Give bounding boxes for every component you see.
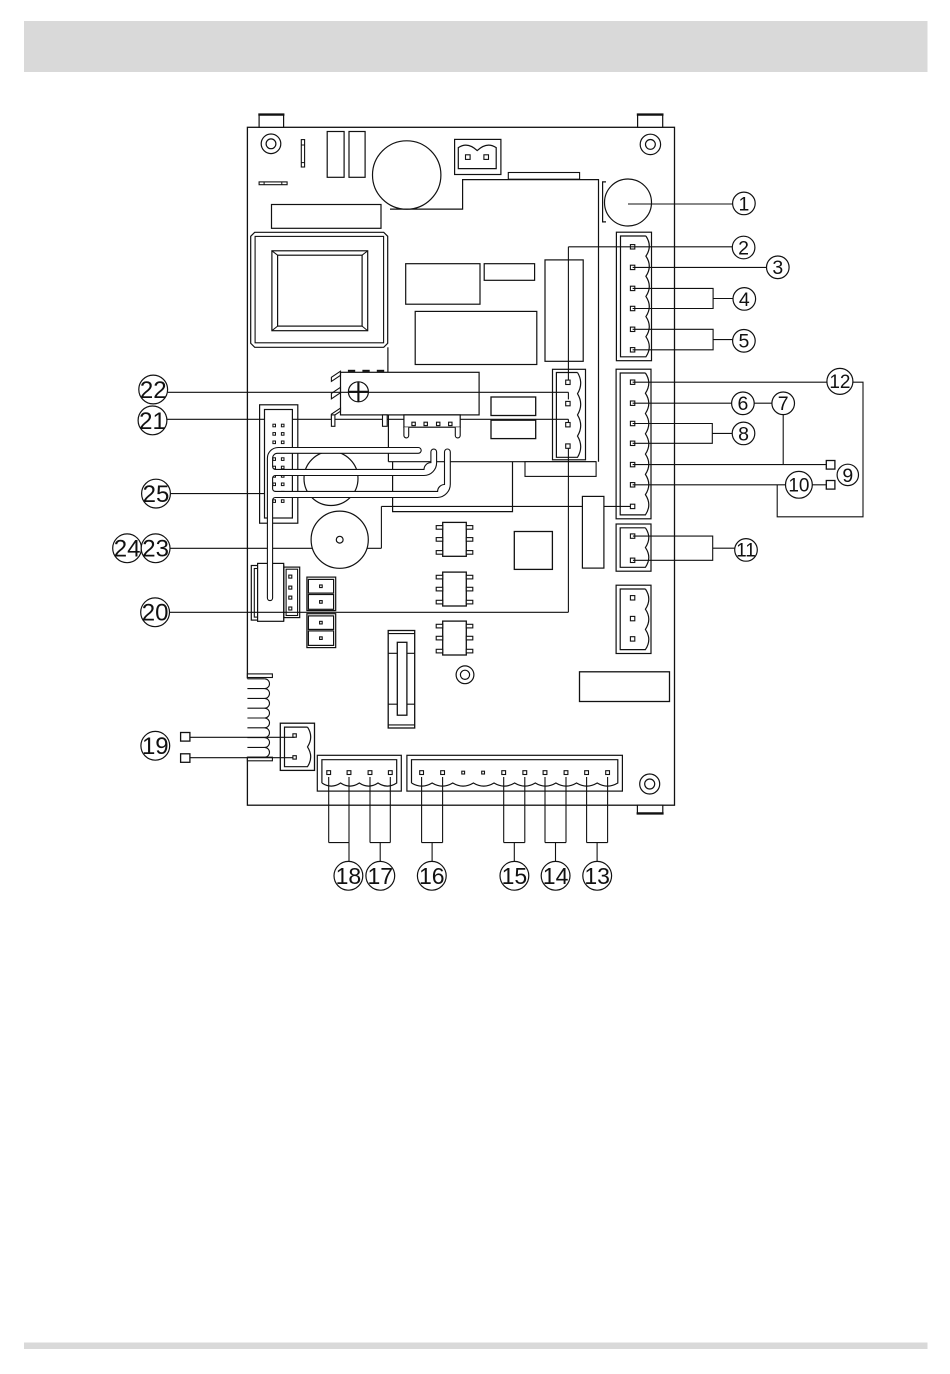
svg-text:25: 25 — [143, 481, 170, 508]
callout 11 — [735, 539, 758, 562]
wire trace 21 horizontal — [167, 418, 569, 420]
connector CN20 pin 2 — [289, 586, 292, 589]
board tab top-right — [637, 114, 664, 127]
mounting hole top-right — [640, 134, 660, 154]
inductor L1 coil — [247, 674, 272, 761]
connector CN23 pin 4 — [566, 444, 570, 448]
connector CN20 pin 4 — [289, 607, 292, 610]
wire bracket 15 — [504, 777, 525, 862]
svg-text:15: 15 — [502, 863, 528, 889]
component tall rect U3 — [545, 260, 583, 361]
connector CN-B pin 5 — [630, 462, 634, 466]
wire tube assembly — [267, 448, 450, 601]
transformer T1 core outer — [272, 251, 368, 331]
horizontal slot jumper — [259, 182, 287, 185]
mounting hole top-left — [261, 134, 281, 154]
test point TP1 — [456, 666, 474, 684]
connector CN19 inner — [285, 727, 311, 767]
rect header top — [272, 205, 382, 229]
connector CN20 frame inner — [254, 569, 280, 618]
connector CN-B pin 2 — [630, 401, 634, 405]
optocoupler block 1 — [307, 577, 336, 611]
connector CN-D pin 3 — [630, 637, 634, 641]
wire trace 23-24 vertical — [380, 506, 382, 548]
connector CN-D outer — [616, 585, 651, 653]
transformer T1 core inner — [278, 255, 363, 326]
wire bracket 18 — [329, 777, 349, 862]
screw on heatsink — [348, 382, 368, 402]
connector CN-E outer — [317, 755, 401, 791]
heatsink fin 3 — [331, 408, 340, 417]
led square 10 — [826, 481, 835, 490]
pcb board outline — [247, 127, 674, 805]
callout 6 — [732, 392, 755, 415]
connector CN20 pin 1 — [289, 575, 292, 578]
callout 15 — [500, 861, 529, 890]
svg-text:17: 17 — [368, 863, 394, 889]
connector CN23 pin 1 — [566, 380, 570, 384]
ic U8 square — [514, 532, 552, 570]
capacitor CE2 — [349, 132, 365, 178]
connector CN23 outer — [553, 369, 586, 460]
callout 21 — [138, 406, 167, 435]
svg-text:3: 3 — [772, 257, 783, 279]
svg-text:18: 18 — [336, 863, 362, 889]
wire trace 10 net — [633, 484, 827, 486]
connector CN-C pin 1 — [630, 534, 634, 538]
connector CN-aux pin 2 — [424, 422, 427, 425]
wire bracket 17 — [370, 777, 390, 862]
connector CN-aux pin 3 — [437, 422, 440, 425]
svg-text:19: 19 — [142, 733, 169, 760]
pin header CN25 pins — [273, 424, 284, 502]
connector CN-E pin 3 — [368, 771, 372, 775]
connector CN-B outer — [616, 369, 651, 519]
component rect R-block2 — [491, 420, 536, 438]
callout 14 — [541, 861, 570, 890]
wire bracket callout 8 — [633, 424, 713, 444]
wire trace 20 net vertical upper — [567, 247, 569, 380]
component tall rect U4 — [582, 496, 604, 568]
connector CN20 sub outer — [284, 567, 300, 618]
to220 dash 2 — [362, 370, 369, 372]
buzzer BZ1 — [311, 511, 368, 568]
connector CN23 inner — [556, 373, 580, 458]
connector CN-F pin 9 — [585, 771, 589, 775]
transformer-edge vertical wire — [387, 347, 389, 372]
connector CN-A pin 5 — [630, 327, 634, 331]
connector CN-aux pin 1 — [412, 422, 415, 425]
region outline mid horizontal — [388, 461, 596, 463]
heatsink fin 1 — [331, 371, 340, 381]
connector CN19 pin 1 — [293, 734, 296, 737]
connector CN-B inner — [620, 373, 649, 515]
component wide rect bottom-right — [580, 672, 670, 702]
svg-text:10: 10 — [788, 475, 809, 496]
connector CN-C outer — [616, 524, 651, 571]
svg-text:14: 14 — [543, 863, 569, 889]
callout 24 — [113, 534, 142, 563]
relay K2 outline — [415, 311, 537, 364]
wire trace 23-24 to connector pin7 — [381, 505, 630, 507]
component rect R-block1 — [491, 397, 536, 416]
mounting hole bottom-right — [640, 774, 660, 794]
vertical slot crystal — [301, 140, 304, 167]
connector CN-E inner — [322, 760, 397, 786]
connector CN19 outer — [280, 723, 314, 770]
component rect U2 — [484, 264, 534, 281]
svg-text:23: 23 — [142, 536, 169, 563]
page footer bar — [24, 1343, 928, 1350]
region outline step near circle — [390, 180, 599, 462]
svg-text:22: 22 — [140, 377, 167, 404]
wire bracket 16 — [422, 777, 443, 862]
connector CN-aux pin 4 — [449, 422, 452, 425]
callout 5 — [733, 330, 756, 353]
callout 17 — [366, 861, 395, 890]
relay K1 outline — [406, 264, 480, 305]
connector CN-aux body — [404, 415, 460, 427]
callout 8 — [732, 422, 755, 445]
board tab top-left — [258, 114, 284, 127]
callout 18 — [334, 861, 363, 890]
ic U6 soic — [436, 572, 473, 606]
connector CN20 body — [258, 563, 284, 621]
callout 25 — [142, 479, 171, 508]
svg-text:6: 6 — [737, 393, 748, 415]
connector CN-A outer — [616, 232, 651, 361]
connector CN23 pin 3 — [566, 423, 570, 427]
transformer T1 frame2 — [255, 236, 384, 342]
connector CN-C pin 2 — [630, 558, 634, 562]
large capacitor C1 — [373, 141, 441, 209]
callout 23 — [141, 534, 170, 563]
wire trace 23-24 to buzzer — [171, 547, 382, 549]
connector CN23 pin 2 — [566, 401, 570, 405]
connector top 2-pin pin1 — [466, 155, 471, 160]
connector CN-D pin 1 — [630, 596, 634, 600]
page header bar — [24, 21, 928, 72]
callout 4 — [733, 288, 756, 311]
region notch outline — [393, 462, 513, 512]
callout 2 — [732, 236, 755, 259]
wire trace 7 vertical — [782, 415, 784, 465]
wire trace 22 — [168, 391, 569, 393]
wire bracket callout 4 — [633, 288, 714, 308]
board tab bottom-right — [637, 805, 664, 813]
leader line callout 1 — [628, 203, 733, 205]
connector top 2-pin outline — [455, 139, 501, 174]
connector CN-A pin 3 — [630, 286, 634, 290]
to220 dash 3 — [377, 370, 384, 372]
wire trace 12 net — [633, 382, 863, 517]
connector CN-B pin 1 — [630, 380, 634, 384]
connector CN-A pin 2 — [630, 265, 634, 269]
connector CN20 sub inner — [286, 569, 298, 615]
connector CN-F pin 4 — [482, 771, 485, 774]
optocoupler block 2 — [307, 614, 336, 648]
connector CN-F pin 8 — [564, 771, 568, 775]
connector CN20 pin 3 — [289, 596, 292, 599]
wire trace 6-7 — [633, 402, 784, 404]
connector CN-B pin 4 — [630, 441, 634, 445]
wire trace 20 horizontal — [170, 611, 569, 613]
wire 19a — [190, 736, 295, 738]
component rect C-block — [525, 462, 596, 477]
connector CN-A pin 4 — [630, 306, 634, 310]
heatsink leg right — [383, 415, 388, 426]
callout 16 — [417, 861, 446, 890]
connector CN-E pin 4 — [388, 771, 392, 775]
callout 7 — [772, 392, 795, 415]
svg-text:9: 9 — [842, 465, 853, 487]
callout 13 — [583, 861, 612, 890]
transformer T1 outer — [251, 232, 388, 347]
vertical wire V1 — [387, 372, 389, 461]
connector CN-F pin 5 — [502, 771, 506, 775]
terminal square 19a — [181, 733, 190, 742]
leader line callout 3 — [633, 266, 767, 268]
callout 9 — [837, 464, 858, 485]
svg-text:13: 13 — [584, 863, 610, 889]
svg-text:4: 4 — [739, 289, 750, 311]
ic U5 soic — [436, 522, 473, 556]
svg-text:16: 16 — [419, 863, 445, 889]
capacitor C3 behind tubes — [304, 452, 358, 506]
svg-text:12: 12 — [829, 372, 850, 393]
connector CN-aux leg right — [455, 427, 460, 438]
connector CN-B pin 7 — [630, 504, 634, 508]
led square 9 — [826, 461, 835, 470]
connector CN-F pin 6 — [523, 771, 527, 775]
svg-text:24: 24 — [114, 536, 141, 563]
connector CN-B pin 6 — [630, 483, 634, 487]
to220 dash 1 — [348, 370, 355, 372]
capacitor C2 flat bracket — [603, 182, 606, 222]
svg-text:1: 1 — [738, 193, 749, 215]
connector top 2-pin inner — [458, 145, 496, 168]
wire trace 21 drop to pin — [567, 419, 569, 422]
connector CN-D pin 2 — [630, 616, 634, 620]
capacitor C2 body — [605, 179, 652, 226]
connector CN-aux leg left — [404, 427, 409, 438]
svg-text:2: 2 — [738, 237, 749, 259]
wire bracket 14 — [545, 777, 566, 862]
connector CN-F pin 7 — [543, 771, 547, 775]
rom socket bar — [508, 173, 579, 180]
wire trace pin1-A to callout 2 — [568, 246, 732, 248]
svg-text:5: 5 — [738, 331, 749, 353]
connector CN-F inner — [412, 760, 618, 786]
connector CN-A inner — [621, 236, 650, 357]
svg-text:20: 20 — [142, 600, 169, 627]
capacitor CE1 — [327, 132, 344, 178]
connector CN-F pin 3 — [462, 771, 465, 774]
connector CN-D inner — [620, 589, 649, 650]
connector CN-F pin 1 — [420, 771, 424, 775]
heatsink fin 2 — [331, 387, 340, 399]
ic U7 soic — [436, 621, 473, 655]
connector CN-A pin 1 — [630, 245, 634, 249]
wire bracket 13 — [587, 777, 608, 862]
callout 1 — [733, 192, 756, 215]
svg-text:7: 7 — [778, 393, 789, 415]
connector CN-A pin 6 — [630, 348, 634, 352]
connector CN-E pin 2 — [347, 771, 351, 775]
svg-text:8: 8 — [738, 423, 749, 445]
callout 22 — [139, 375, 168, 404]
callout 3 — [767, 256, 790, 279]
callout 10 — [786, 471, 813, 498]
connector CN-F outer — [407, 755, 623, 791]
heatsink body — [341, 372, 480, 415]
heatsink leg left — [331, 415, 335, 426]
connector CN-F pin 2 — [441, 771, 445, 775]
pin header CN25 outer — [260, 405, 298, 523]
connector CN20 frame outer — [251, 566, 283, 621]
connector CN-C inner — [620, 528, 649, 568]
connector CN-B pin 3 — [630, 421, 634, 425]
svg-text:21: 21 — [139, 408, 166, 435]
callout 20 — [141, 598, 170, 627]
wire bracket callout 11 — [633, 536, 713, 560]
fuse holder F1 — [388, 631, 415, 729]
pin header CN25 inner — [265, 410, 293, 519]
callout 19 — [141, 731, 170, 760]
connector CN-F pin 10 — [606, 771, 610, 775]
terminal square 19b — [181, 754, 190, 763]
connector CN-E pin 1 — [327, 771, 331, 775]
svg-text:11: 11 — [736, 541, 756, 562]
wire trace 9 net — [633, 464, 827, 466]
wire 19b — [190, 757, 295, 759]
callout 12 — [827, 368, 853, 394]
connector CN19 pin 2 — [293, 756, 296, 759]
wire bracket callout 5 — [633, 329, 714, 350]
wire trace 25 — [171, 493, 264, 495]
wire trace 20 net vertical lower — [567, 448, 569, 612]
connector top 2-pin pin2 — [484, 155, 489, 160]
